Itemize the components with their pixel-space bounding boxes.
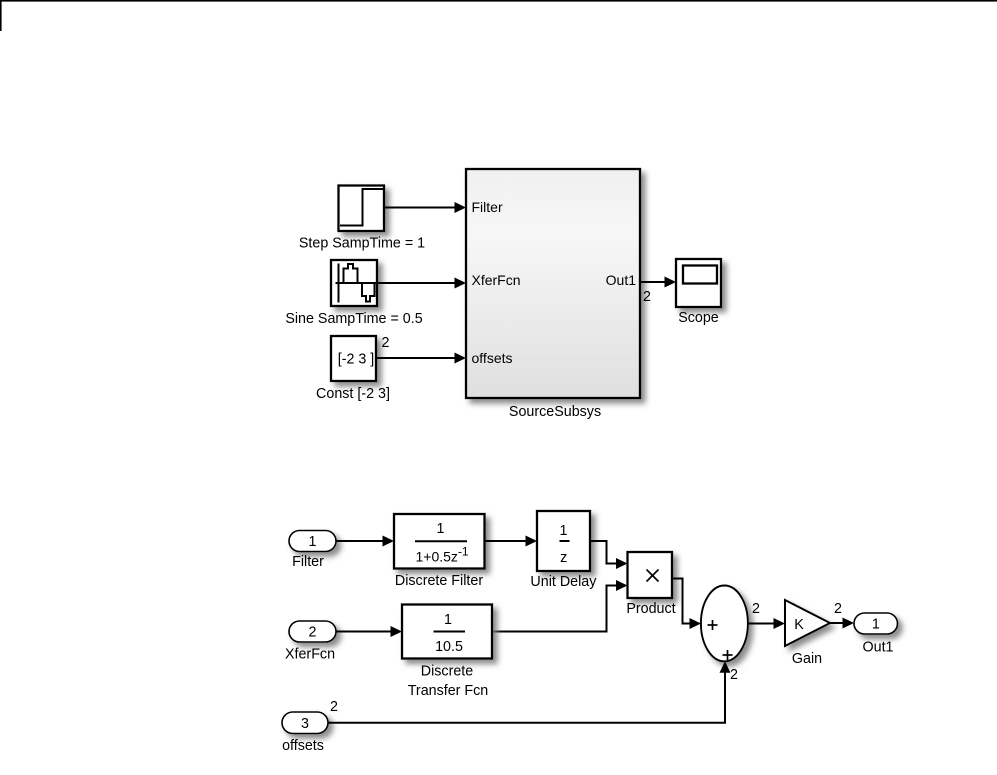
svg-text:2: 2 [330, 699, 338, 715]
svg-text:Product: Product [626, 601, 675, 617]
svg-text:2: 2 [730, 667, 738, 683]
svg-text:10.5: 10.5 [435, 639, 463, 655]
svg-text:1: 1 [560, 523, 568, 539]
svg-text:XferFcn: XferFcn [285, 647, 335, 663]
svg-text:offsets: offsets [472, 350, 513, 366]
svg-text:2: 2 [834, 601, 842, 617]
svg-text:2: 2 [382, 335, 390, 351]
svg-text:Gain: Gain [792, 651, 822, 667]
svg-text:SourceSubsys: SourceSubsys [509, 404, 601, 420]
svg-text:2: 2 [643, 289, 651, 305]
svg-text:offsets: offsets [282, 738, 324, 754]
svg-text:Step SampTime = 1: Step SampTime = 1 [299, 236, 425, 252]
svg-text:Out1: Out1 [606, 272, 637, 288]
svg-text:Const [-2 3]: Const [-2 3] [316, 386, 390, 402]
svg-text:1: 1 [444, 612, 452, 628]
svg-text:XferFcn: XferFcn [472, 272, 521, 288]
svg-text:K: K [794, 617, 804, 633]
svg-text:Filter: Filter [472, 199, 503, 215]
svg-text:z: z [560, 550, 567, 566]
svg-text:Out1: Out1 [863, 640, 894, 656]
svg-text:Scope: Scope [678, 310, 719, 326]
svg-text:1: 1 [872, 617, 880, 633]
svg-text:Filter: Filter [292, 554, 324, 570]
svg-text:1: 1 [437, 521, 445, 537]
svg-text:Sine SampTime = 0.5: Sine SampTime = 0.5 [285, 311, 422, 327]
svg-text:1: 1 [309, 534, 317, 550]
svg-text:3: 3 [301, 716, 309, 732]
svg-text:2: 2 [309, 625, 317, 641]
svg-text:Discrete Filter: Discrete Filter [395, 573, 483, 589]
svg-text:Discrete: Discrete [421, 664, 473, 680]
svg-text:Transfer Fcn: Transfer Fcn [408, 683, 489, 699]
svg-text:[-2 3 ]: [-2 3 ] [338, 352, 375, 368]
svg-text:Unit Delay: Unit Delay [530, 574, 597, 590]
svg-text:2: 2 [752, 601, 760, 617]
